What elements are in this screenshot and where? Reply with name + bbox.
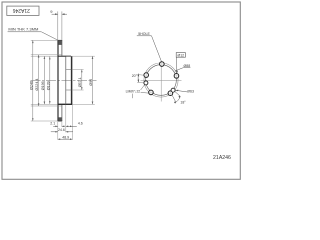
extension line step1 top: [31, 54, 62, 56]
svg-text:21A246: 21A246: [213, 155, 231, 161]
svg-text:Ø63: Ø63: [187, 89, 194, 93]
extension line step2 top: [31, 55, 58, 57]
locating hole left: [144, 81, 148, 85]
locating hole lower-right: [171, 88, 175, 92]
bore dimension bracket: [72, 70, 84, 91]
friction ring OD corner fill upper: [58, 40, 61, 45]
hat diameter dimension: [66, 56, 95, 104]
bore bottom line: [66, 89, 72, 91]
friction ring OD corner fill lower: [58, 117, 61, 121]
stud hole upper-left: [144, 73, 149, 78]
stud hole top: [160, 62, 165, 67]
hat radial bottom (dark): [58, 103, 73, 105]
svg-text:Ø12: Ø12: [178, 53, 185, 57]
svg-text:20°: 20°: [132, 74, 138, 78]
bore top line: [66, 69, 72, 71]
svg-text:48.9: 48.9: [62, 135, 69, 139]
svg-text:LMØ7↓22: LMØ7↓22: [126, 89, 141, 93]
mounting face (thick): [71, 56, 73, 104]
svg-text:Ø139: Ø139: [46, 81, 50, 90]
center cross vertical: [160, 61, 162, 102]
stud hole upper-right: [174, 74, 179, 79]
bottom dim row3 (48.9): [58, 135, 73, 140]
bottom dim row1 left (2.1): [50, 122, 65, 128]
border frame: [2, 2, 240, 179]
bottom dim row2 (24.6): [51, 128, 73, 133]
inboard face lower segment: [61, 105, 63, 121]
svg-text:Ø57.1: Ø57.1: [78, 77, 82, 87]
svg-text:Ø246: Ø246: [29, 81, 33, 90]
svg-text:Ø196: Ø196: [41, 81, 45, 90]
outboard face (full height): [57, 40, 59, 121]
20 degree dimension: [132, 74, 144, 83]
extension line disc bottom: [31, 120, 58, 122]
diameter dim line 3: [41, 56, 45, 104]
svg-text:Ø88: Ø88: [184, 64, 191, 68]
stud hole dia callout (boxed 12): [176, 53, 185, 74]
svg-text:Ø224.4: Ø224.4: [35, 78, 39, 90]
svg-text:5HOLE: 5HOLE: [138, 32, 150, 36]
stud hole lower-left: [149, 90, 154, 95]
bottom dim row1 right (4.6): [66, 122, 83, 128]
diameter dim line 4: [46, 57, 50, 104]
diameter dim line 2: [35, 55, 39, 106]
thickness dimension (9): [50, 9, 67, 40]
min thickness note: [8, 28, 58, 41]
PCD dia callout: [175, 64, 190, 72]
bottom extension lines: [57, 122, 59, 140]
extension line disc top: [31, 39, 58, 41]
svg-text:MIN THK 7.3MM: MIN THK 7.3MM: [8, 28, 38, 32]
inboard face upper segment: [61, 40, 63, 55]
svg-text:Ø96: Ø96: [89, 79, 93, 86]
hat radial top (dark): [58, 55, 72, 57]
title box top-left: [7, 6, 39, 15]
flange outer circle: [144, 63, 178, 97]
extension line step2 bottom: [31, 103, 58, 105]
OD top edge: [58, 39, 63, 41]
18 degree dimension: [172, 91, 186, 104]
holes note (5HOLE): [137, 32, 162, 62]
locating hole dia callout: [176, 89, 195, 93]
svg-text:4.6: 4.6: [78, 122, 83, 126]
PCD circle: [146, 65, 177, 96]
svg-text:2.1: 2.1: [50, 122, 55, 126]
diameter dim line 1: [29, 40, 33, 121]
center cross horizontal: [141, 79, 182, 81]
stud hole lower-right: [168, 91, 173, 96]
extension line step1 bottom: [31, 105, 62, 107]
svg-text:21A246: 21A246: [12, 7, 29, 13]
svg-text:18°: 18°: [180, 100, 186, 104]
hat outer wall: [65, 56, 67, 104]
locating hole note (LM 07 T22): [126, 85, 150, 99]
svg-text:24.6: 24.6: [58, 128, 65, 132]
centerline: [31, 80, 97, 82]
OD bottom edge: [58, 120, 63, 122]
